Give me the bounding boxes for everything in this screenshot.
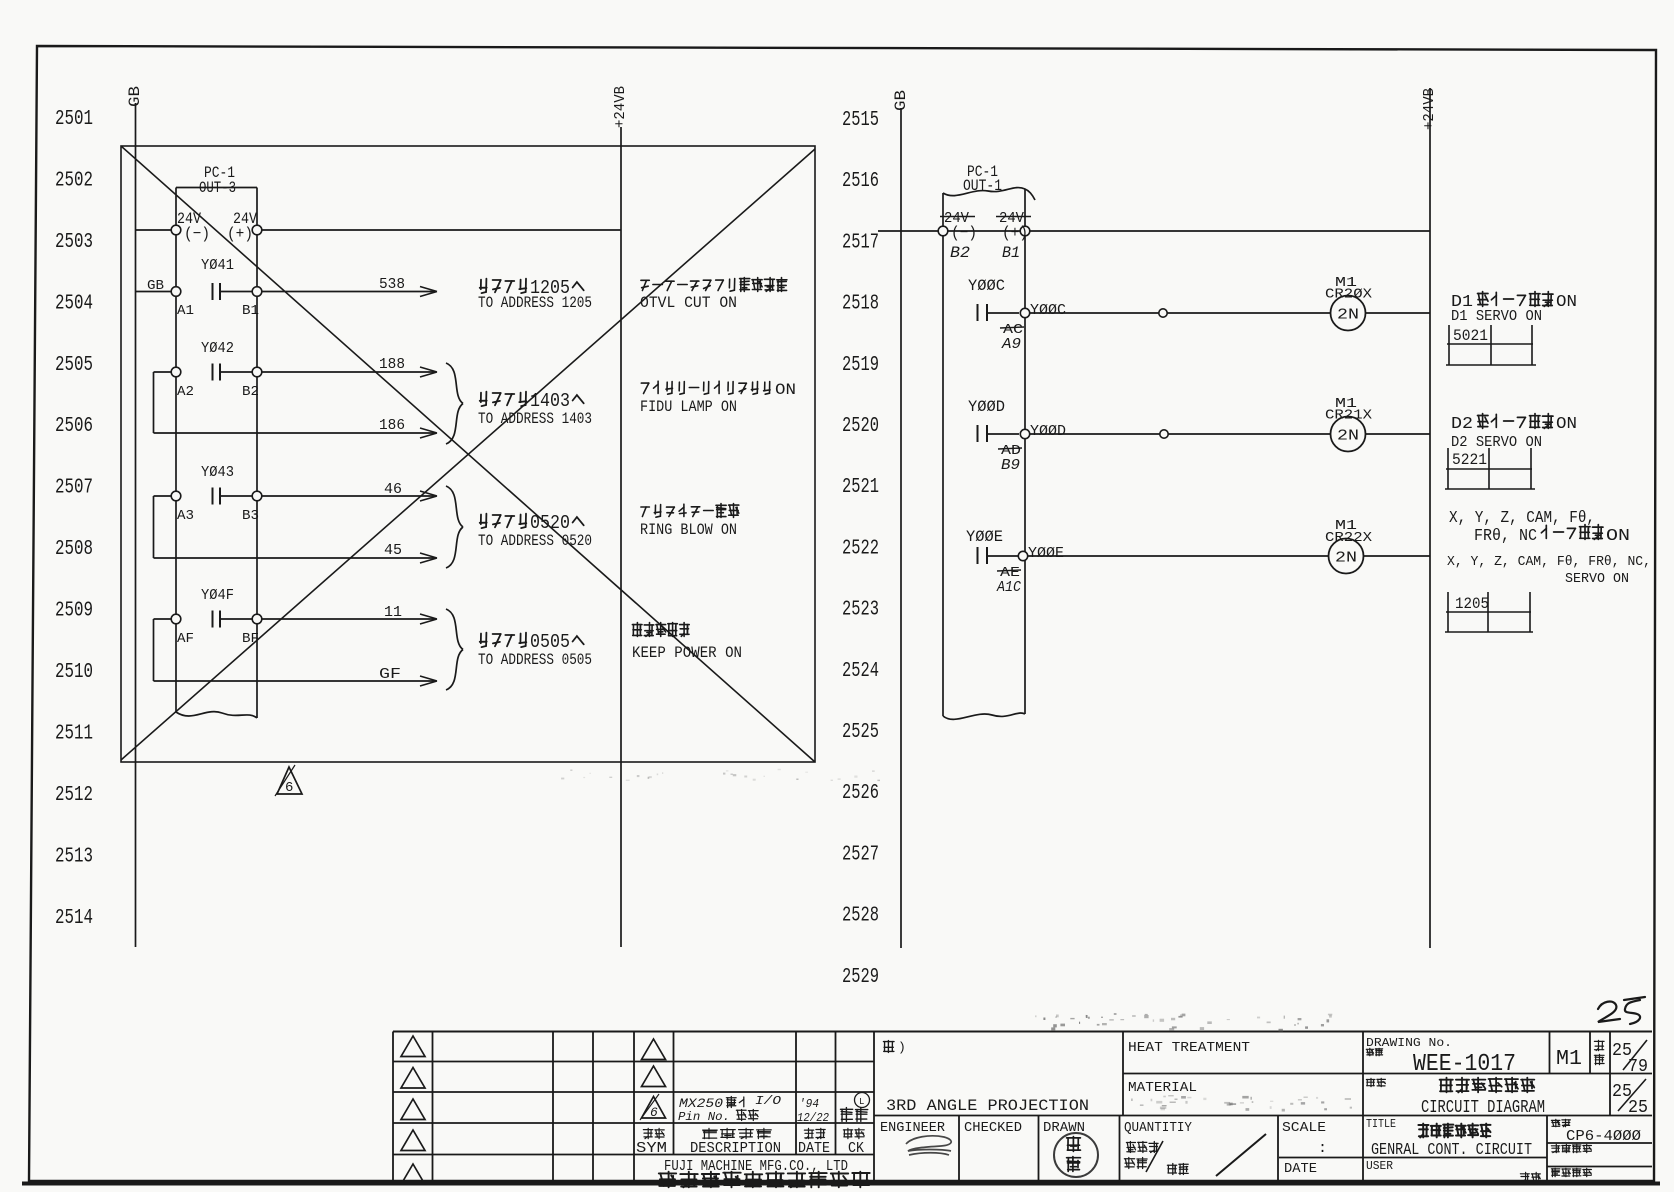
svg-text:12/22: 12/22: [797, 1111, 829, 1125]
wire 24V rail 2517: [878, 230, 938, 232]
取扱 small mark: [1520, 1172, 1540, 1181]
svg-text:2524: 2524: [842, 660, 879, 683]
svg-text:B2: B2: [950, 244, 970, 262]
address box 1205: [1447, 592, 1449, 632]
svg-text:2509: 2509: [55, 600, 93, 623]
wire A2 stub: [154, 371, 172, 373]
contact Y04F: [212, 611, 214, 628]
node アドレス1205へ destination: [480, 279, 527, 293]
svg-text:USER: USER: [1366, 1159, 1393, 1173]
brace group 0520: [446, 486, 463, 568]
svg-text:CR22X: CR22X: [1325, 530, 1373, 546]
wire 45 to address 0520: [154, 557, 437, 559]
left +24VB bus label: [612, 86, 629, 128]
svg-text:A1C: A1C: [996, 579, 1021, 596]
sheet bottom edge shadow: [22, 1182, 1660, 1186]
svg-text:X, Y, Z, CAM, Fθ,: X, Y, Z, CAM, Fθ,: [1449, 509, 1595, 528]
生産番号 label: [1551, 1168, 1591, 1176]
svg-text:HEAT TREATMENT: HEAT TREATMENT: [1128, 1040, 1250, 1056]
engineer-checked vline: [958, 1116, 960, 1183]
svg-text:2N: 2N: [1335, 551, 1357, 567]
svg-text:0505: 0505: [530, 631, 570, 653]
pin A3: [171, 491, 181, 501]
svg-text:WEE-1017: WEE-1017: [1413, 1051, 1516, 1078]
contact Y042: [212, 364, 214, 381]
deletion diagonal 2: [121, 149, 815, 760]
svg-text:3RD ANGLE PROJECTION: 3RD ANGLE PROJECTION: [886, 1097, 1089, 1115]
pin Y00E: [1018, 551, 1027, 560]
svg-text:B2: B2: [242, 384, 259, 400]
checked-drawn vline: [1038, 1116, 1040, 1183]
svg-text:2511: 2511: [55, 723, 93, 746]
brace group 1403: [446, 363, 463, 444]
svg-text:2510: 2510: [55, 661, 93, 684]
wire branch down from A3: [153, 496, 155, 558]
svg-text:188: 188: [379, 356, 405, 373]
wire 46 to address 0520: [262, 495, 436, 497]
svg-text:2527: 2527: [842, 843, 879, 866]
title 総合制御回路: [1418, 1124, 1490, 1138]
revision triangle A2: [401, 1068, 425, 1089]
rev A col2 vline: [552, 1032, 554, 1183]
m1 cell vline left: [1549, 1032, 1551, 1074]
revision triangle A1: [401, 1036, 425, 1057]
header 日付: [804, 1128, 825, 1138]
rev A col3 vline: [592, 1032, 594, 1183]
svg-text:2516: 2516: [842, 170, 879, 193]
pin Y00D: [1020, 429, 1029, 438]
svg-text:M1: M1: [1556, 1048, 1582, 1071]
revision tables row line 2: [393, 1091, 874, 1093]
heat treatment cell vline: [1122, 1032, 1124, 1116]
pin AF: [171, 614, 181, 624]
quantity-scale vline: [1277, 1116, 1279, 1183]
svg-text:2502: 2502: [55, 169, 93, 192]
arrow 46: [420, 491, 437, 501]
drawn stamp: [1054, 1133, 1098, 1177]
revision triangle A3: [401, 1099, 425, 1120]
left GB bus rail: [135, 103, 137, 947]
heat/material + drawing row line: [1123, 1073, 1652, 1075]
revision triangle A5: [401, 1164, 425, 1185]
svg-text:CP6-4ØØØ: CP6-4ØØØ: [1566, 1128, 1641, 1145]
contact Y043: [212, 488, 214, 505]
wire GB stub to A1: [136, 291, 172, 293]
title block mid line: [874, 1115, 1652, 1117]
drawn-quantity vline: [1119, 1116, 1121, 1183]
contact Y00C: [977, 304, 979, 321]
svg-text:FIDU LAMP ON: FIDU LAMP ON: [640, 398, 737, 416]
quantity 一台分: [1126, 1142, 1158, 1153]
m1 cell vline right: [1589, 1032, 1591, 1074]
頁番 labels: [1594, 1040, 1604, 1050]
svg-text:GB: GB: [892, 90, 910, 111]
svg-text:2529: 2529: [842, 966, 879, 989]
svg-text:GB: GB: [147, 278, 164, 294]
svg-text:11: 11: [384, 604, 402, 621]
rev6 checker stamp: [841, 1108, 868, 1122]
svg-text:CIRCUIT DIAGRAM: CIRCUIT DIAGRAM: [1421, 1098, 1545, 1118]
node アドレス0505へ destination: [480, 633, 527, 647]
svg-text:YØØD: YØØD: [1030, 423, 1066, 440]
svg-text:DATE: DATE: [798, 1140, 830, 1157]
svg-text:(+): (+): [1002, 224, 1028, 242]
svg-text:2520: 2520: [842, 415, 879, 438]
node アドレス1403へ destination: [480, 392, 527, 406]
pin B3: [252, 491, 262, 501]
svg-text:2513: 2513: [55, 845, 93, 868]
svg-text:2505: 2505: [55, 354, 93, 377]
wire 186 to address 1403: [154, 432, 437, 434]
drawing no 図番: [1366, 1048, 1382, 1055]
svg-text:2522: 2522: [842, 537, 879, 560]
svg-text:QUANTITIY: QUANTITIY: [1124, 1120, 1193, 1136]
svg-text:A2: A2: [177, 384, 194, 400]
junction node: [1159, 309, 1167, 317]
arrow 11: [420, 614, 437, 624]
rev table B left vline: [633, 1032, 635, 1183]
junction node: [1160, 430, 1168, 438]
svg-text:6: 6: [650, 1105, 658, 1120]
contact Y00D: [977, 425, 979, 442]
svg-text:2N: 2N: [1337, 429, 1359, 445]
svg-text:YØØC: YØØC: [1030, 302, 1066, 319]
left GB bus label: [126, 86, 144, 107]
svg-text:2519: 2519: [842, 354, 879, 377]
scan speckles below deleted box: [561, 769, 880, 781]
pin B2: [252, 367, 262, 377]
svg-text:SCALE: SCALE: [1282, 1120, 1326, 1136]
right +24VB bus label: [1421, 88, 1438, 130]
rev B date col vline: [835, 1032, 837, 1155]
rev A sym col vline: [432, 1032, 434, 1183]
pin Y00C: [1020, 308, 1029, 317]
scan smudge in material cell: [1131, 1095, 1352, 1111]
wire AF stub: [154, 618, 172, 620]
arrow 188: [420, 367, 437, 377]
svg-text:538: 538: [379, 276, 405, 293]
svg-text:+24VB: +24VB: [612, 86, 629, 128]
revision tables row line 3: [393, 1122, 874, 1124]
svg-text:2508: 2508: [55, 538, 93, 561]
arrow GF: [420, 676, 437, 686]
pin A1: [171, 287, 181, 297]
pin 24V(+) OUT-3: [252, 225, 262, 235]
rev table B right vline: [873, 1032, 875, 1183]
pin B1 24V(+): [1020, 226, 1030, 236]
svg-text:L: L: [859, 1097, 864, 1107]
分類番号 label: [1551, 1144, 1591, 1152]
wire 188 to address 1403: [262, 371, 436, 373]
svg-text:GF: GF: [379, 666, 401, 683]
svg-text:45: 45: [384, 542, 402, 559]
wire coil CR21X to +24VB: [1366, 433, 1431, 435]
revision marker 6 in table: [642, 1097, 666, 1119]
wire contact to B3: [221, 495, 252, 497]
svg-text:TO ADDRESS 0505: TO ADDRESS 0505: [478, 651, 592, 669]
pin B2 24V(-): [938, 226, 948, 236]
svg-text:2526: 2526: [842, 782, 879, 805]
svg-text:5021: 5021: [1453, 327, 1488, 345]
svg-text:B3: B3: [242, 508, 259, 524]
wire Y00D to coil CR21X: [1030, 433, 1331, 435]
revision triangle B2: [642, 1066, 666, 1087]
comment リングブロー起動: [641, 504, 739, 518]
svg-text:ENGINEER: ENGINEER: [880, 1120, 946, 1136]
right GB bus rail: [900, 108, 902, 948]
svg-text:YØ4F: YØ4F: [201, 587, 234, 604]
svg-text:MATERIAL: MATERIAL: [1128, 1080, 1197, 1096]
svg-text:6: 6: [285, 780, 293, 796]
wire A3 stub: [154, 495, 172, 497]
wire coil CR22X to +24VB: [1364, 555, 1431, 557]
svg-text:5221: 5221: [1452, 451, 1487, 469]
品名 label: [1366, 1078, 1385, 1086]
svg-text:ON: ON: [1556, 415, 1577, 434]
svg-text:46: 46: [384, 481, 402, 498]
wire contact to pin Y00D: [988, 433, 1019, 435]
revision tables row line 1: [393, 1061, 874, 1063]
page-no cell vline: [1609, 1032, 1611, 1116]
svg-text:TO ADDRESS 1403: TO ADDRESS 1403: [478, 410, 592, 428]
header 記号: [643, 1128, 664, 1138]
svg-text:A3: A3: [177, 508, 194, 524]
wire 24V(-) to GB bus: [136, 229, 172, 231]
svg-text:YØØE: YØØE: [966, 528, 1003, 546]
svg-text:KEEP POWER ON: KEEP POWER ON: [632, 644, 742, 662]
revision marker 6 triangle: [277, 767, 302, 794]
svg-text:SYM: SYM: [636, 1140, 667, 1157]
scale-date title-user divider: [1279, 1157, 1547, 1159]
right GB bus label: [892, 90, 910, 111]
svg-text:YØØC: YØØC: [968, 277, 1005, 295]
wire contact to B2: [221, 371, 252, 373]
rev B desc col vline: [795, 1032, 797, 1155]
svg-text:D2 SERVO ON: D2 SERVO ON: [1451, 434, 1542, 451]
drawing-no cell vline: [1362, 1032, 1364, 1183]
title 電気回路線図: [1440, 1078, 1535, 1093]
wire branch down from A2: [153, 372, 155, 433]
quantity 合計: [1167, 1164, 1188, 1175]
svg-text:2512: 2512: [55, 784, 93, 807]
svg-text:YØ43: YØ43: [201, 464, 234, 481]
wire 24V(+) to +24VB bus: [262, 229, 621, 231]
handwritten sheet number 25: [1598, 1002, 1620, 1022]
deletion diagonal 1: [121, 146, 815, 762]
comment オーバートラベル制御解除: [641, 278, 787, 292]
svg-text:YØ41: YØ41: [201, 257, 234, 274]
svg-text:2528: 2528: [842, 905, 879, 928]
svg-text:B9: B9: [1001, 457, 1020, 474]
header 担当: [843, 1128, 864, 1138]
svg-text:2507: 2507: [55, 477, 93, 500]
relay coil CR20X: [1331, 296, 1366, 331]
svg-text:+24VB: +24VB: [1421, 88, 1438, 130]
pin B1: [252, 287, 262, 297]
scan speckles above heat treatment: [1035, 1013, 1332, 1032]
deleted section box: [121, 146, 815, 762]
svg-text:CR2ØX: CR2ØX: [1325, 287, 1373, 303]
quantity 個数: [1124, 1158, 1147, 1169]
svg-text:2501: 2501: [55, 108, 93, 131]
brace group 0505: [446, 609, 463, 690]
contact Y00E: [977, 547, 979, 564]
svg-text:FRθ, NC: FRθ, NC: [1474, 527, 1537, 546]
svg-text:ON: ON: [1606, 527, 1630, 546]
wire contact to pin Y00C: [988, 312, 1019, 314]
機種 label: [1551, 1119, 1570, 1126]
svg-text:GB: GB: [126, 86, 144, 107]
wire contact to B1: [221, 291, 252, 293]
svg-text:YØ42: YØ42: [201, 340, 234, 357]
svg-text::: :: [1318, 1140, 1327, 1157]
svg-text:B1: B1: [242, 303, 259, 319]
comment フィデューシャルランプON: [641, 381, 770, 394]
svg-text:(+): (+): [227, 225, 253, 243]
svg-text:(−): (−): [184, 225, 210, 243]
svg-text:RING BLOW ON: RING BLOW ON: [640, 521, 737, 539]
arrow 186: [420, 428, 437, 438]
svg-text:2N: 2N: [1337, 308, 1359, 324]
note mark: [884, 1041, 895, 1053]
quantity slash small: [1146, 1141, 1163, 1172]
svg-text:2515: 2515: [842, 109, 879, 132]
contact Y041: [212, 283, 214, 300]
svg-text:OTVL CUT ON: OTVL CUT ON: [640, 294, 737, 312]
pin 24V(-) OUT-3: [171, 225, 181, 235]
svg-text:D1 SERVO ON: D1 SERVO ON: [1451, 308, 1542, 325]
title block frame top: [393, 1031, 1652, 1033]
svg-text:Pin No.: Pin No.: [678, 1110, 730, 1124]
revision triangle B1: [642, 1039, 666, 1060]
wire coil CR20X to +24VB: [1366, 312, 1431, 314]
wire contact to pin Y00E: [988, 555, 1018, 557]
svg-text:): ): [898, 1040, 906, 1055]
address box 5221: [1447, 448, 1449, 489]
svg-text:YØØE: YØØE: [1028, 545, 1064, 562]
wire contact to BF: [221, 618, 252, 620]
svg-text:CHECKED: CHECKED: [964, 1120, 1022, 1136]
quantity big slash: [1216, 1134, 1266, 1176]
svg-text:D2: D2: [1451, 415, 1473, 434]
svg-text:MX250: MX250: [679, 1096, 723, 1111]
header 訂正記録: [703, 1128, 772, 1138]
right +24VB bus rail: [1429, 88, 1431, 948]
svg-text:TO ADDRESS 0520: TO ADDRESS 0520: [478, 532, 592, 550]
svg-text:I/O: I/O: [755, 1094, 781, 1108]
svg-text:0520: 0520: [530, 512, 570, 534]
svg-text:A9: A9: [1001, 336, 1021, 353]
wire GF to address 0505: [154, 680, 437, 682]
svg-text:GENRAL CONT. CIRCUIT: GENRAL CONT. CIRCUIT: [1371, 1141, 1532, 1160]
svg-text:CR21X: CR21X: [1325, 408, 1373, 424]
wire Y00C to coil CR20X: [1030, 312, 1331, 314]
svg-text:25: 25: [1628, 1098, 1648, 1118]
connector PC-1 OUT-1 body: [943, 188, 1035, 200]
revision triangle A4: [401, 1130, 425, 1151]
svg-text:SERVO ON: SERVO ON: [1565, 571, 1629, 587]
svg-text:ON: ON: [1556, 293, 1577, 312]
svg-text:TO ADDRESS 1205: TO ADDRESS 1205: [478, 294, 592, 312]
svg-text:'94: '94: [799, 1097, 819, 1111]
svg-text:ON: ON: [775, 381, 796, 399]
wire 11 to address 0505: [262, 618, 436, 620]
svg-text:X, Y, Z, CAM, Fθ, FRθ, NC,: X, Y, Z, CAM, Fθ, FRθ, NC,: [1447, 554, 1651, 570]
arrow 538: [420, 287, 437, 297]
svg-text:(−): (−): [951, 224, 977, 242]
relay coil CR21X: [1331, 417, 1366, 452]
svg-text:2521: 2521: [842, 476, 879, 499]
svg-text:186: 186: [379, 417, 405, 434]
svg-text:BF: BF: [242, 631, 259, 647]
connector PC-1 OUT-3 body: [176, 187, 257, 189]
svg-text:DESCRIPTION: DESCRIPTION: [690, 1140, 781, 1157]
svg-text:2518: 2518: [842, 293, 879, 316]
svg-text:TITLE: TITLE: [1366, 1117, 1396, 1131]
rev table A left vline: [392, 1032, 394, 1183]
pin A2: [171, 367, 181, 377]
svg-text:2503: 2503: [55, 231, 93, 254]
wire Y00E to coil CR22X: [1028, 555, 1329, 557]
svg-text:2525: 2525: [842, 721, 879, 744]
svg-text:1403: 1403: [530, 390, 570, 412]
wire branch down from AF: [153, 619, 155, 681]
svg-text:2506: 2506: [55, 415, 93, 438]
svg-text:1205: 1205: [1455, 595, 1489, 613]
comment 電源断禁止: [632, 623, 689, 637]
address box 5021: [1448, 325, 1450, 365]
rev B sym col vline: [673, 1032, 675, 1155]
revision tables row line 4: [393, 1154, 874, 1156]
left +24VB bus rail: [620, 127, 622, 947]
engineer signature scribble: [906, 1136, 951, 1155]
relay coil CR22X: [1329, 539, 1364, 574]
pin BF: [252, 614, 262, 624]
svg-text:2504: 2504: [55, 292, 93, 315]
cp6 cell divider 2: [1547, 1166, 1652, 1168]
maker name jp: [659, 1172, 870, 1188]
svg-text:A1: A1: [177, 303, 194, 319]
svg-text:CK: CK: [848, 1140, 864, 1157]
svg-text:2523: 2523: [842, 599, 879, 622]
svg-text:YØØD: YØØD: [968, 398, 1005, 416]
svg-text:DATE: DATE: [1284, 1161, 1317, 1177]
svg-text:2514: 2514: [55, 907, 93, 930]
arrow 45: [420, 553, 437, 563]
svg-text:B1: B1: [1002, 244, 1020, 262]
svg-text:2517: 2517: [842, 231, 879, 254]
title-cp6 vline: [1546, 1116, 1548, 1183]
svg-text:AF: AF: [177, 631, 194, 647]
wire 538 to address 1205: [262, 291, 436, 293]
cp6 cell divider 1: [1547, 1142, 1652, 1144]
node アドレス0520へ destination: [480, 514, 527, 528]
